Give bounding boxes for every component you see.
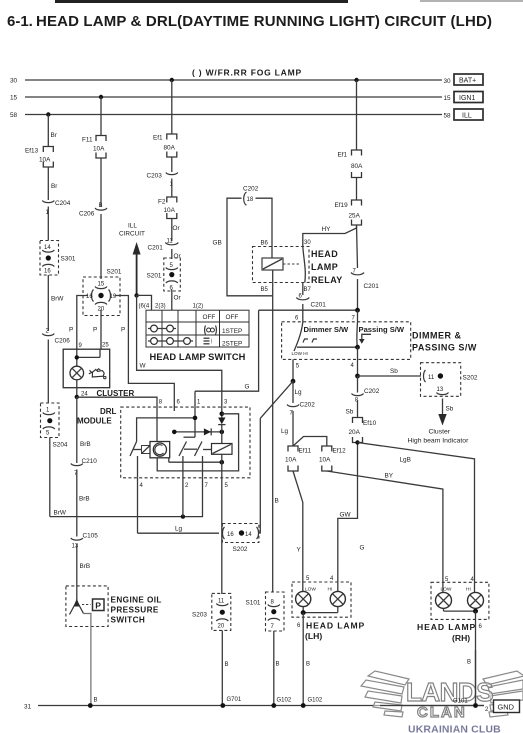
splice S201 (5/6) bbox=[147, 258, 181, 292]
splice S301 (14/16) bbox=[40, 241, 76, 276]
wire pin7 from middle switch bbox=[202, 456, 204, 478]
svg-text:C202: C202 bbox=[364, 388, 380, 395]
svg-text:G: G bbox=[360, 545, 365, 552]
fuse Ef10 20A bbox=[349, 418, 377, 443]
fuse F11 10A bbox=[82, 136, 106, 159]
svg-text:16: 16 bbox=[227, 532, 234, 538]
svg-text:PRESSURE: PRESSURE bbox=[111, 606, 159, 615]
svg-text:LOW HI: LOW HI bbox=[292, 351, 308, 356]
ILL CIRCUIT arrow bbox=[119, 223, 145, 296]
svg-text:HI: HI bbox=[328, 587, 333, 593]
svg-text:BrB: BrB bbox=[80, 441, 91, 448]
fuse Ef13 10A bbox=[25, 147, 53, 168]
wire Lg from pin 4 to S202 bbox=[138, 478, 220, 533]
svg-text:25A: 25A bbox=[349, 213, 361, 220]
connector C201 pin 7 bbox=[351, 269, 379, 311]
fuse Ef11 10A bbox=[285, 446, 312, 471]
junction at dimmer pin 7 bbox=[355, 308, 360, 313]
fuse Ef12 10A bbox=[319, 446, 346, 471]
svg-text:Dimmer S/W: Dimmer S/W bbox=[304, 325, 350, 334]
svg-text:31: 31 bbox=[24, 704, 32, 711]
svg-text:14: 14 bbox=[245, 532, 252, 538]
svg-text:F2: F2 bbox=[158, 199, 166, 206]
wire Y from Ef11 to LH low bbox=[293, 471, 303, 575]
node junction below pin 24 bbox=[75, 395, 79, 399]
wire B to ground G102 bbox=[274, 631, 292, 706]
row3 contacts (2STEP) bbox=[148, 338, 193, 345]
wire B trunk from relay/GB to S101 bbox=[273, 296, 279, 593]
svg-text:Ef10: Ef10 bbox=[363, 420, 377, 427]
svg-text:10A: 10A bbox=[93, 146, 105, 153]
svg-text:1(2): 1(2) bbox=[193, 304, 204, 310]
svg-text:30: 30 bbox=[10, 78, 18, 85]
wire Or to C201 bbox=[171, 219, 173, 242]
connector C202 pin 7 bbox=[281, 402, 315, 447]
splice S202 (16/14) bbox=[222, 524, 259, 554]
oil pressure switch contact bbox=[70, 586, 105, 706]
svg-text:DIMMER &: DIMMER & bbox=[412, 331, 462, 341]
svg-text:Lg: Lg bbox=[281, 428, 289, 435]
terminal box IGN1 bbox=[454, 92, 483, 103]
wire from S202-14 up (to dimmer diagonal) bbox=[258, 418, 260, 533]
fuse F2 10A bbox=[158, 197, 177, 219]
wire B RH redrawn over watermark bbox=[475, 650, 477, 706]
wire to switch table col1 bbox=[137, 295, 152, 310]
svg-text:10A: 10A bbox=[164, 207, 176, 214]
svg-text:CLAN: CLAN bbox=[417, 704, 467, 721]
svg-text:30: 30 bbox=[444, 78, 452, 85]
ground junction G701 bbox=[220, 703, 225, 708]
svg-text:HI: HI bbox=[466, 587, 471, 593]
svg-text:2(3): 2(3) bbox=[155, 304, 166, 310]
svg-text:B: B bbox=[94, 698, 98, 704]
head lamp RH dashed box bbox=[431, 582, 489, 619]
svg-text:C202: C202 bbox=[300, 402, 316, 409]
svg-text:58: 58 bbox=[10, 112, 18, 119]
svg-text:11: 11 bbox=[218, 599, 225, 605]
node 15 bus (IGN1) bbox=[10, 95, 451, 103]
wire B to ground G102 bbox=[303, 613, 323, 706]
svg-text:Lg: Lg bbox=[175, 526, 183, 533]
svg-text:S204: S204 bbox=[53, 442, 68, 449]
row1 OFF OFF bbox=[203, 314, 239, 321]
svg-text:Sb: Sb bbox=[346, 409, 354, 416]
svg-text:C210: C210 bbox=[82, 458, 98, 465]
svg-text:C105: C105 bbox=[83, 533, 99, 540]
svg-text:P: P bbox=[93, 327, 97, 334]
svg-text:B7: B7 bbox=[304, 287, 312, 293]
svg-text:G102: G102 bbox=[277, 698, 292, 704]
RH lamp common wire bbox=[444, 608, 476, 611]
svg-text:CIRCUIT: CIRCUIT bbox=[119, 231, 145, 238]
page top edge marks bbox=[55, 0, 348, 3]
internal top rail to left switch bbox=[137, 418, 195, 442]
svg-text:15: 15 bbox=[10, 95, 18, 102]
wire BrW horizontal to DRL pins 2,7 bbox=[50, 478, 203, 517]
svg-text:B: B bbox=[275, 498, 279, 505]
dimmer contact lever bbox=[292, 322, 318, 356]
svg-text:Br: Br bbox=[51, 183, 58, 190]
lands clan watermark logo bbox=[361, 671, 523, 717]
connector C204 pin 1 bbox=[42, 200, 70, 241]
ground junction bbox=[271, 703, 276, 708]
svg-text:6-1.: 6-1. bbox=[7, 13, 33, 30]
terminal box GND bbox=[494, 700, 520, 713]
row2 contacts (1STEP) bbox=[148, 325, 176, 332]
wire from bus 15 to F11 bbox=[100, 97, 102, 135]
svg-text:C201: C201 bbox=[311, 302, 327, 309]
head lamp switch table bbox=[146, 310, 249, 347]
svg-text:10A: 10A bbox=[285, 457, 297, 464]
caption HEAD LAMP (RH) bbox=[417, 622, 476, 643]
caption HEAD LAMP (LH) bbox=[305, 621, 365, 642]
splice S204 (1/5) bbox=[41, 403, 68, 449]
svg-text:F11: F11 bbox=[82, 137, 93, 144]
svg-text:B: B bbox=[99, 203, 103, 209]
svg-text:20A: 20A bbox=[349, 429, 361, 436]
wire W from junction to DRL pin 3 bbox=[137, 295, 222, 411]
svg-text:Sb: Sb bbox=[390, 368, 398, 375]
ground junction bbox=[301, 703, 306, 708]
wire to C203 bbox=[171, 157, 173, 172]
svg-text:58: 58 bbox=[444, 113, 452, 120]
svg-text:P: P bbox=[121, 327, 125, 334]
ground junction G101 bbox=[473, 703, 478, 708]
relay labels bbox=[261, 240, 343, 293]
head lamp relay dashed box bbox=[253, 247, 310, 283]
junction on bus 30 right bbox=[354, 78, 358, 82]
DRL left switch lever bbox=[130, 442, 137, 457]
node junction pin5 bbox=[291, 379, 296, 384]
terminal box ILL bbox=[454, 109, 483, 120]
svg-text:LgB: LgB bbox=[400, 457, 411, 464]
connector C201 pin 6 bbox=[296, 294, 326, 311]
svg-text:30: 30 bbox=[304, 240, 311, 246]
wire down to C201 pin 7 bbox=[357, 225, 358, 268]
wire pin1 internal bbox=[194, 391, 196, 437]
node LH common junction bbox=[301, 610, 306, 615]
svg-text:BY: BY bbox=[385, 473, 394, 480]
wire from bus 30 to fuse Ef1 right bbox=[356, 80, 358, 150]
wire to C206 pin B bbox=[100, 158, 102, 207]
wire BY from Ef12 to RH low bbox=[327, 471, 443, 575]
svg-text:B: B bbox=[225, 662, 229, 668]
svg-text:P: P bbox=[69, 327, 73, 334]
svg-text:Br: Br bbox=[51, 132, 58, 139]
connector C206 pin 2 bbox=[42, 329, 70, 404]
svg-text:W: W bbox=[140, 363, 147, 370]
head lamp LH dashed box bbox=[292, 582, 351, 617]
svg-text:BrW: BrW bbox=[54, 510, 67, 517]
svg-text:RELAY: RELAY bbox=[311, 275, 343, 285]
svg-text:Passing S/W: Passing S/W bbox=[359, 325, 405, 334]
svg-text:B5: B5 bbox=[261, 287, 269, 293]
svg-text:11: 11 bbox=[428, 375, 435, 381]
svg-text:G: G bbox=[245, 384, 250, 391]
splice S201 (15/16/19/20) bbox=[83, 269, 122, 316]
pin3 trunk with down diode bbox=[218, 411, 225, 444]
svg-text:S101: S101 bbox=[246, 600, 261, 607]
wire pin4 from left lever bbox=[137, 456, 139, 478]
wire lamp to pin 24 bbox=[76, 380, 78, 397]
splice S101 (8/7) bbox=[246, 592, 285, 631]
rail below motor to coil output bbox=[169, 458, 222, 462]
wire pin5 down to S203 bbox=[221, 478, 223, 594]
connector C210 pin 7 bbox=[71, 458, 97, 537]
RH low beam lamp bbox=[436, 575, 452, 608]
wire P from S201-20 to cluster pin 25 bbox=[100, 310, 102, 350]
svg-text:10A: 10A bbox=[39, 157, 51, 164]
table pin labels 6(4 2(3) 1(2) bbox=[139, 304, 204, 310]
wire pin2 from middle switch bbox=[182, 456, 184, 478]
junction DRL pin2 on BrW wire bbox=[181, 514, 185, 518]
RH hi beam lamp bbox=[468, 575, 484, 608]
svg-text:Ef12: Ef12 bbox=[333, 448, 347, 455]
wire GW from Ef10 to LH hi bbox=[338, 443, 358, 576]
svg-text:G701: G701 bbox=[227, 697, 242, 703]
wire to Ef19 bbox=[356, 178, 358, 201]
solenoid wedge bbox=[133, 446, 150, 454]
DRL motor bbox=[150, 442, 170, 458]
splice S202 (11/13) bbox=[421, 363, 478, 397]
svg-text:C201: C201 bbox=[148, 245, 164, 252]
wire down from S204 bbox=[49, 438, 51, 517]
svg-text:GW: GW bbox=[340, 512, 352, 519]
fuse Ef19 25A bbox=[335, 200, 362, 225]
switch caption bbox=[111, 596, 162, 625]
cluster box bbox=[63, 349, 109, 388]
connector C202 pin 8 bbox=[346, 388, 380, 418]
node passing junction bbox=[355, 345, 360, 350]
node pin3 top junction bbox=[220, 412, 225, 417]
wire Sb pin4 down to C202-8 bbox=[357, 376, 359, 393]
svg-text:Lg: Lg bbox=[295, 389, 303, 396]
svg-text:HY: HY bbox=[322, 226, 332, 233]
fuse Ef1 80A right bbox=[338, 150, 364, 178]
wire coil to pin 5 bbox=[221, 454, 223, 478]
svg-text:(LH): (LH) bbox=[305, 631, 322, 641]
svg-text:G101: G101 bbox=[453, 699, 468, 705]
node RH common junction bbox=[473, 609, 478, 614]
LH lamp common wire bbox=[303, 607, 338, 613]
bridge wire Ef11 to Ef12 bbox=[293, 437, 327, 447]
svg-text:Ef1: Ef1 bbox=[153, 135, 163, 142]
svg-text:2STEP: 2STEP bbox=[222, 340, 242, 347]
svg-text:HEAD LAMP: HEAD LAMP bbox=[417, 622, 476, 632]
node pin6 junction bbox=[172, 430, 177, 435]
LH hi beam lamp bbox=[330, 575, 345, 607]
svg-text:80A: 80A bbox=[164, 145, 176, 152]
svg-text:S201: S201 bbox=[107, 269, 122, 276]
passing switch lever bbox=[357, 322, 371, 346]
node junction pin1/top rail bbox=[193, 416, 198, 421]
wire HY to relay contact 30 bbox=[303, 225, 357, 247]
svg-text:C203: C203 bbox=[147, 173, 163, 180]
diagonal wire pin5 to S202-14 riser bbox=[260, 381, 293, 418]
svg-text:LANDS: LANDS bbox=[406, 677, 493, 707]
connector C206 pin B bbox=[79, 203, 107, 279]
dimmer & passing switch dashed box bbox=[282, 322, 411, 360]
node 58 bus (ILL) bbox=[10, 112, 451, 120]
svg-text:C202: C202 bbox=[243, 186, 259, 193]
svg-text:Sb: Sb bbox=[446, 406, 454, 413]
svg-text:LOW: LOW bbox=[441, 587, 452, 593]
svg-text:PASSING S/W: PASSING S/W bbox=[412, 343, 477, 353]
svg-text:S201: S201 bbox=[147, 273, 162, 280]
svg-text:High beam Indicator: High beam Indicator bbox=[408, 438, 470, 445]
svg-text:16: 16 bbox=[44, 269, 51, 275]
terminal box BAT+ bbox=[454, 74, 483, 85]
DRL module dashed box bbox=[121, 407, 250, 478]
svg-text:Cluster: Cluster bbox=[429, 429, 451, 436]
internal rail y=432 with diode to pin3 trunk bbox=[174, 428, 222, 435]
svg-text:HEAD LAMP & DRL(DAYTIME RUNNIN: HEAD LAMP & DRL(DAYTIME RUNNING LIGHT) C… bbox=[36, 13, 492, 30]
wire middle switch to coil bbox=[203, 449, 212, 451]
svg-text:UKRAINIAN CLUB: UKRAINIAN CLUB bbox=[408, 725, 501, 733]
wire LgB from Ef10 to RH hi bbox=[355, 440, 474, 575]
wire GB from C202-18 left side bbox=[227, 198, 273, 296]
junction on bus 58 bbox=[46, 112, 50, 116]
engine oil pressure switch box bbox=[66, 586, 108, 627]
dimmer wiper rail bbox=[297, 346, 358, 348]
svg-text:C206: C206 bbox=[55, 338, 71, 345]
svg-text:C206: C206 bbox=[79, 211, 95, 218]
svg-text:20: 20 bbox=[218, 624, 225, 630]
wire Or from S201 to switch table bbox=[171, 290, 173, 311]
svg-text:18: 18 bbox=[247, 197, 254, 203]
svg-text:B: B bbox=[306, 662, 310, 668]
bypass wire around coil bbox=[157, 414, 238, 471]
wire G from dimmer feed to DRL pin 1 bbox=[195, 310, 259, 391]
node 30 bus (BAT+) bbox=[10, 78, 451, 86]
svg-text:C201: C201 bbox=[364, 283, 380, 290]
svg-text:P: P bbox=[95, 601, 101, 611]
svg-text:IGN1: IGN1 bbox=[459, 95, 475, 102]
wire Lg pin5 to C202-7 bbox=[293, 381, 302, 403]
wire Br from bus 58 down bbox=[47, 115, 49, 147]
LH low beam lamp bbox=[296, 575, 311, 607]
svg-text:Ef1: Ef1 bbox=[338, 152, 348, 159]
svg-text:HEAD LAMP: HEAD LAMP bbox=[306, 621, 365, 631]
svg-text:S202: S202 bbox=[233, 546, 248, 553]
svg-text:80A: 80A bbox=[351, 163, 363, 170]
svg-text:GB: GB bbox=[213, 240, 222, 247]
svg-text:S202: S202 bbox=[463, 375, 478, 382]
wire B to ground G101 bbox=[467, 611, 476, 705]
indicator lamp in cluster bbox=[70, 366, 84, 380]
svg-text:OFF: OFF bbox=[203, 314, 216, 321]
svg-text:SWITCH: SWITCH bbox=[111, 616, 146, 625]
svg-text:DRL: DRL bbox=[100, 407, 117, 416]
svg-text:13: 13 bbox=[437, 387, 444, 393]
svg-text:ILL: ILL bbox=[462, 113, 472, 120]
ground bus right redrawn bbox=[380, 705, 484, 707]
relay coil bbox=[262, 258, 300, 270]
svg-text:BrW: BrW bbox=[51, 296, 64, 303]
svg-text:ENGINE OIL: ENGINE OIL bbox=[111, 596, 162, 605]
wire to DRL pin 8 bbox=[77, 397, 157, 441]
row2 position lamp symbol bbox=[205, 326, 217, 335]
wire B to ground G701 bbox=[222, 630, 242, 705]
svg-text:Ef11: Ef11 bbox=[299, 448, 312, 455]
wire from bus 30 to fuse Ef1 bbox=[171, 80, 173, 134]
svg-text:15: 15 bbox=[98, 282, 105, 288]
connector C203 pin 1 bbox=[147, 173, 178, 198]
cluster internal wiring bbox=[77, 349, 100, 366]
svg-text:( ) W/FR.RR FOG LAMP: ( ) W/FR.RR FOG LAMP bbox=[192, 68, 302, 78]
dimmer pin 6 bbox=[295, 310, 303, 322]
connector C105 pin 13 bbox=[71, 533, 98, 587]
svg-text:OFF: OFF bbox=[226, 314, 239, 321]
svg-text:BrB: BrB bbox=[79, 496, 90, 503]
svg-text:GND: GND bbox=[498, 703, 514, 712]
svg-text:Or: Or bbox=[173, 225, 181, 232]
ground junction G? bbox=[88, 703, 93, 708]
svg-text:13: 13 bbox=[72, 544, 79, 550]
svg-text:25: 25 bbox=[102, 343, 109, 349]
dimmer pin 4 bbox=[351, 347, 358, 376]
svg-text:C204: C204 bbox=[55, 200, 71, 207]
wire BrB down to C210 bbox=[76, 397, 78, 463]
svg-text:G102: G102 bbox=[308, 698, 323, 704]
oil warning symbol bbox=[89, 369, 106, 379]
junction on bus 30 left bbox=[170, 78, 174, 82]
svg-text:1STEP: 1STEP bbox=[222, 328, 242, 335]
DRL middle switch bbox=[179, 437, 202, 456]
node 31 ground bus bbox=[24, 704, 484, 711]
svg-text:(RH): (RH) bbox=[452, 633, 470, 643]
wire B7 to C201 pin 6 bbox=[302, 283, 304, 296]
node coil output junction bbox=[220, 460, 225, 465]
wire Sb to cluster high beam arrow bbox=[408, 399, 470, 445]
dimmer pin 7 bbox=[352, 310, 358, 322]
svg-text:Y: Y bbox=[297, 547, 302, 554]
svg-text:ILL: ILL bbox=[128, 223, 137, 230]
svg-text:B: B bbox=[467, 660, 471, 666]
svg-text:B6: B6 bbox=[261, 241, 269, 247]
DRL relay coil bbox=[212, 444, 233, 455]
svg-text:Ef19: Ef19 bbox=[335, 202, 349, 209]
svg-text:BAT+: BAT+ bbox=[459, 78, 476, 85]
junction on bus 15 bbox=[99, 95, 103, 99]
wire linking C201-6, G wire and dimmer feed bbox=[259, 309, 358, 311]
wire BrW to C206 bbox=[47, 275, 49, 331]
splice S203 (11/20) bbox=[192, 593, 231, 630]
wire P from S201-16 to cluster pin 9 bbox=[77, 296, 88, 350]
svg-text:HEAD LAMP SWITCH: HEAD LAMP SWITCH bbox=[150, 352, 246, 362]
row3 head lamp symbol bbox=[204, 338, 212, 345]
wire P from S201-19 to DRL pin 6 bbox=[115, 296, 175, 412]
relay contact 30-B7 bbox=[303, 247, 306, 283]
svg-text:14: 14 bbox=[44, 245, 51, 251]
svg-text:(6(4: (6(4 bbox=[139, 304, 150, 310]
wire from C202-18 right side to relay B6 bbox=[256, 198, 273, 258]
svg-text:Or: Or bbox=[174, 295, 182, 302]
svg-text:BrB: BrB bbox=[80, 563, 91, 570]
dimmer pin 5 bbox=[293, 359, 300, 381]
svg-text:MODULE: MODULE bbox=[77, 417, 112, 426]
connector C202 pin 18 bbox=[243, 186, 259, 206]
svg-text:10A: 10A bbox=[319, 457, 331, 464]
wire B5 from coil down bbox=[272, 270, 274, 296]
node: junction of ILL branch / W wire / switch feed bbox=[134, 293, 138, 297]
svg-text:S301: S301 bbox=[61, 256, 76, 263]
fuse Ef1 80A bbox=[153, 134, 177, 157]
node junction in cluster bbox=[75, 355, 79, 359]
wire Sb from pin 4 junction to S202 bbox=[355, 368, 421, 378]
svg-text:S203: S203 bbox=[192, 612, 207, 619]
svg-text:HEAD: HEAD bbox=[311, 249, 338, 259]
